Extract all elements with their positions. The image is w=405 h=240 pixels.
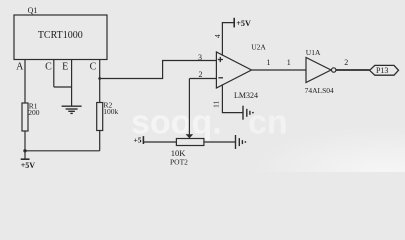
svg-text:C: C — [45, 62, 52, 73]
wire pin 11 to ground — [222, 84, 243, 112]
svg-text:3: 3 — [198, 53, 202, 62]
svg-text:+5V: +5V — [21, 161, 36, 170]
svg-text:10K: 10K — [171, 148, 187, 158]
power +5 pot — [133, 136, 143, 145]
resistor R1 200 — [22, 102, 40, 131]
svg-text:P13: P13 — [376, 66, 388, 75]
potentiometer POT2 10K — [170, 139, 204, 167]
svg-text:1: 1 — [287, 58, 291, 67]
svg-text:A: A — [16, 62, 24, 73]
wire E to ground — [71, 87, 73, 106]
resistor R2 100k — [97, 101, 119, 131]
photo-interrupter Q1 TCRT1000 — [14, 6, 107, 73]
svg-text:4: 4 — [213, 34, 222, 38]
wire R1 to +5V rail — [24, 131, 26, 151]
op-amp U2A LM324 — [216, 43, 266, 100]
power +5V bottom — [21, 151, 36, 170]
wire pin C collector to R2 — [99, 60, 101, 103]
wire op-amp output to inverter — [252, 69, 307, 71]
power +5V op-amp — [234, 18, 251, 28]
svg-text:1: 1 — [267, 58, 271, 67]
wire R2 bottom to rail — [99, 131, 101, 151]
junction dot — [23, 149, 26, 152]
wire pin C cathode — [53, 60, 55, 88]
svg-text:+5V: +5V — [236, 19, 251, 28]
wire collector node to op-amp +input — [100, 61, 217, 79]
svg-text:POT2: POT2 — [170, 158, 188, 167]
wire +5 to POT2 — [143, 141, 176, 143]
wire pin 4 to +5V — [222, 23, 234, 56]
wire inverter output to port P13 — [336, 69, 370, 71]
svg-text:200: 200 — [28, 108, 40, 117]
svg-text:U2A: U2A — [251, 43, 266, 52]
ground GND3 — [236, 135, 247, 149]
ground GND2 — [243, 106, 254, 120]
svg-text:2: 2 — [199, 70, 203, 79]
wire pin E — [71, 60, 73, 88]
svg-text:74ALS04: 74ALS04 — [305, 86, 334, 95]
wire C-E join — [54, 86, 72, 88]
wire POT2 to ground — [204, 141, 236, 143]
ground GND1 — [62, 106, 82, 113]
svg-text:cn: cn — [248, 104, 288, 142]
svg-text:2: 2 — [344, 58, 348, 67]
wire +5V rail — [25, 150, 100, 152]
svg-text:11: 11 — [212, 100, 221, 107]
svg-text:U1A: U1A — [306, 48, 321, 57]
inverter U1A 74ALS04 — [305, 48, 336, 95]
svg-text:C: C — [90, 62, 97, 73]
svg-text:LM324: LM324 — [234, 91, 258, 100]
junction dot collector node — [98, 77, 101, 80]
port P13 — [370, 65, 399, 75]
svg-text:+5: +5 — [133, 136, 141, 145]
wire pot wiper to pin 2 — [186, 79, 194, 139]
svg-text:Q1: Q1 — [28, 6, 38, 15]
wire pin A to R1 — [24, 60, 26, 104]
svg-text:100k: 100k — [103, 107, 118, 116]
svg-text:E: E — [62, 62, 68, 73]
wire pin 2 input — [189, 78, 216, 80]
svg-text:TCRT1000: TCRT1000 — [38, 30, 83, 41]
svg-text:sooq.: sooq. — [131, 104, 222, 142]
